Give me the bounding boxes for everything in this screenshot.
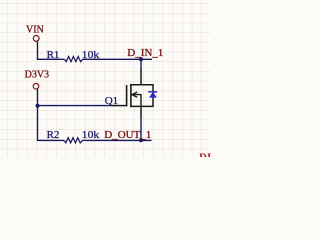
power port D3V3 xyxy=(25,70,49,90)
Q1 body diode line xyxy=(152,85,154,107)
Q1 body diode triangle xyxy=(150,92,157,97)
svg-text:DIP: DIP xyxy=(199,152,211,157)
svg-text:R1: R1 xyxy=(47,49,60,61)
Q1 source pin xyxy=(140,106,142,118)
wire R2 to D_OUT_1 xyxy=(85,139,152,141)
svg-text:D_IN_1: D_IN_1 xyxy=(127,47,163,59)
transistor Q1 xyxy=(112,69,157,119)
wire VIN to R1 xyxy=(38,41,65,59)
wire Q1 source to D_OUT_1 xyxy=(140,118,142,140)
Q1 source bar xyxy=(130,105,153,107)
junction node D_IN_1 xyxy=(139,57,143,61)
Q1 gate pin xyxy=(112,105,127,107)
Q1 channel bar xyxy=(130,84,132,107)
wire gate to Q1 xyxy=(38,105,113,107)
svg-text:D_OUT_1: D_OUT_1 xyxy=(104,129,151,141)
Q1 drain pin xyxy=(140,69,142,85)
resistor R2 xyxy=(64,138,85,143)
power port VIN xyxy=(26,24,44,41)
Q1 drain bar xyxy=(130,84,153,86)
wire D3V3 down to R2 xyxy=(38,89,65,140)
svg-text:R2: R2 xyxy=(47,129,60,141)
Q1 gate bar xyxy=(126,85,128,106)
Q1 body diode cathode bar xyxy=(148,91,157,93)
svg-text:VIN: VIN xyxy=(26,24,44,35)
svg-text:10k: 10k xyxy=(82,129,100,141)
resistor R1 xyxy=(65,57,83,62)
wire R1 to D_IN_1 xyxy=(83,58,152,60)
Q1 bulk arrow head xyxy=(132,92,137,97)
svg-text:D3V3: D3V3 xyxy=(25,70,49,81)
wire D_IN_1 to Q1 drain xyxy=(140,59,142,69)
junction node D_OUT_1 xyxy=(139,138,143,142)
junction node gate xyxy=(36,104,40,108)
Q1 bulk arrow line xyxy=(132,95,141,106)
